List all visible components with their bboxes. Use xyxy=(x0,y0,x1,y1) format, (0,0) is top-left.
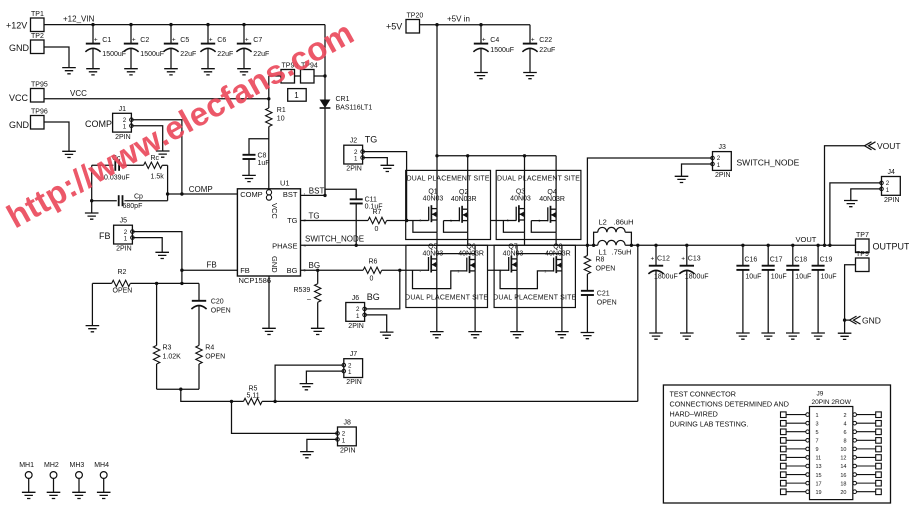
svg-text:+: + xyxy=(209,37,213,44)
capacitor Cc 0.039uF xyxy=(92,164,114,166)
resistor R5 5.11 xyxy=(244,398,263,404)
wire VOUT arrow to rail xyxy=(825,146,865,246)
svg-text:+: + xyxy=(531,37,535,44)
svg-text:40N03: 40N03 xyxy=(510,196,531,203)
svg-text:OPEN: OPEN xyxy=(211,307,231,314)
wire lower drain link xyxy=(437,253,475,255)
wire TP96 to ground xyxy=(44,122,69,151)
wire J3 pin1 to ground xyxy=(682,164,713,176)
svg-text:BG: BG xyxy=(309,261,321,270)
test point TP95 xyxy=(31,89,45,103)
test connector outline box xyxy=(663,385,890,503)
resistor R3 1.02K xyxy=(156,283,158,345)
svg-text:MH2: MH2 xyxy=(44,462,59,469)
svg-text:+: + xyxy=(245,37,249,44)
svg-text:R3: R3 xyxy=(163,345,172,352)
svg-text:FB: FB xyxy=(240,266,250,275)
svg-text:Q5: Q5 xyxy=(428,244,437,251)
svg-text:TG: TG xyxy=(287,216,298,225)
resistor R7 0 xyxy=(368,217,387,223)
test point TP7 xyxy=(856,239,870,253)
svg-text:2: 2 xyxy=(843,413,846,419)
wire Q6 source to ground xyxy=(474,271,476,332)
svg-text:TG: TG xyxy=(365,135,378,145)
svg-text:CR1: CR1 xyxy=(336,96,350,103)
svg-text:TP7: TP7 xyxy=(856,232,869,239)
svg-text:TP96: TP96 xyxy=(31,109,48,116)
svg-text:TP1: TP1 xyxy=(31,11,44,18)
svg-text:12: 12 xyxy=(840,456,846,462)
wire Q6 drain riser to switch bus xyxy=(474,245,476,259)
svg-text:+5V: +5V xyxy=(386,22,402,32)
wire J1 pin2 to COMP net xyxy=(131,120,182,194)
J9 pins 13 and 14 xyxy=(781,463,787,469)
svg-text:COMP: COMP xyxy=(189,185,213,194)
svg-text:Q3: Q3 xyxy=(516,189,525,196)
wire Q8 drain riser to switch bus xyxy=(561,245,563,259)
svg-text:40N03R: 40N03R xyxy=(539,196,565,203)
svg-text:R4: R4 xyxy=(205,345,214,352)
svg-text:R7: R7 xyxy=(373,209,382,216)
svg-text:1: 1 xyxy=(124,236,128,243)
test point TP20 xyxy=(406,20,420,34)
svg-text:HARD–WIRED: HARD–WIRED xyxy=(670,410,718,419)
ground C16 xyxy=(736,333,750,339)
J9 pins 7 and 8 xyxy=(781,438,787,444)
capacitor C12 1800uF xyxy=(655,245,657,265)
ground comp network xyxy=(85,213,99,219)
svg-text:+12V: +12V xyxy=(6,21,27,31)
svg-text:OPEN: OPEN xyxy=(597,300,617,307)
svg-text:22uF: 22uF xyxy=(217,51,233,58)
J9 pins 15 and 16 xyxy=(781,472,787,478)
transistor Q8 40N03R xyxy=(554,256,562,273)
svg-text:1500uF: 1500uF xyxy=(490,47,514,54)
ground J2 xyxy=(381,165,395,171)
wire Q7 source to ground xyxy=(516,270,518,331)
wire R5 line to VOUT riser xyxy=(262,400,638,402)
svg-text:C2: C2 xyxy=(140,37,149,44)
ground J6 xyxy=(380,332,394,338)
capacitor C22 22uF xyxy=(529,25,531,44)
svg-text:C13: C13 xyxy=(688,256,701,263)
ground TP2 xyxy=(62,68,76,74)
svg-text:FB: FB xyxy=(99,231,111,241)
svg-text:1500uF: 1500uF xyxy=(140,51,164,58)
svg-text:+: + xyxy=(651,256,655,263)
wire J8 pin2 to sense line xyxy=(232,401,338,433)
svg-text:17: 17 xyxy=(816,481,822,487)
svg-text:C20: C20 xyxy=(211,299,224,306)
capacitor C17 10uF xyxy=(767,245,769,265)
ground C5 xyxy=(164,69,178,75)
connector J7 xyxy=(344,359,363,378)
wire Q6 gate underpass xyxy=(413,270,467,288)
wire +5V in rail xyxy=(420,24,531,26)
svg-text:10uF: 10uF xyxy=(745,274,761,281)
J9 pins 9 and 10 xyxy=(781,446,787,452)
wire J3 pin2 to switch node xyxy=(587,158,712,245)
svg-text:J8: J8 xyxy=(344,420,352,427)
svg-text:SWITCH_NODE: SWITCH_NODE xyxy=(305,235,364,244)
resistor Rc 1.5k xyxy=(144,162,163,168)
ground R2 xyxy=(86,326,100,332)
svg-text:1: 1 xyxy=(356,313,360,320)
svg-text:TG: TG xyxy=(309,211,320,220)
svg-text:CONNECTIONS DETERMINED AND: CONNECTIONS DETERMINED AND xyxy=(670,400,789,409)
svg-text:C18: C18 xyxy=(794,257,807,264)
svg-text:+: + xyxy=(172,37,176,44)
test point TP9 xyxy=(856,258,870,272)
wire C8 tap xyxy=(249,139,269,155)
svg-text:20PIN 2ROW: 20PIN 2ROW xyxy=(812,399,852,406)
svg-text:15: 15 xyxy=(816,473,822,479)
wire lower drain link xyxy=(517,253,562,255)
wire BG gate bridge between lower boxes xyxy=(488,269,509,271)
wire TG from U1 to R7 xyxy=(301,220,369,222)
wire R2 left to ground xyxy=(91,283,93,325)
svg-text:R2: R2 xyxy=(118,269,127,276)
wire Q3 drain riser xyxy=(524,156,526,209)
diode CR1 BAS116LT1 xyxy=(324,76,326,100)
wire TG gate bridge between upper boxes xyxy=(491,220,517,222)
wire Q8 source to ground xyxy=(561,271,563,332)
svg-text:6: 6 xyxy=(843,430,846,436)
wire divider bottom xyxy=(157,388,199,390)
svg-text:Q2: Q2 xyxy=(459,189,468,196)
resistor R6 0 xyxy=(363,267,382,273)
svg-text:L2: L2 xyxy=(599,218,607,227)
svg-text:+12_VIN: +12_VIN xyxy=(63,15,95,24)
ground C6 xyxy=(201,69,215,75)
ground C22 xyxy=(523,73,537,79)
svg-text:.75uH: .75uH xyxy=(612,248,632,257)
wire Q2 gate underpass and source xyxy=(444,221,468,233)
svg-text:1uF: 1uF xyxy=(258,160,270,167)
op-amp U1 NCP1586 controller xyxy=(237,189,300,276)
wire J5 pin2 to FB net xyxy=(132,232,182,271)
test point TP96 xyxy=(31,116,45,130)
svg-text:PHASE: PHASE xyxy=(272,242,297,251)
net arrow GND xyxy=(850,316,861,324)
svg-text:OPEN: OPEN xyxy=(113,287,133,294)
svg-text:MH3: MH3 xyxy=(70,462,85,469)
svg-text:TP95: TP95 xyxy=(31,82,48,89)
svg-text:1800uF: 1800uF xyxy=(654,274,678,281)
svg-text:MH1: MH1 xyxy=(19,462,34,469)
capacitor C6 22uF xyxy=(207,25,209,44)
svg-text:20: 20 xyxy=(840,490,846,496)
svg-text:40N03R: 40N03R xyxy=(451,196,477,203)
ground C19 xyxy=(811,333,825,339)
ground C4 xyxy=(474,73,488,79)
svg-text:10uF: 10uF xyxy=(771,274,787,281)
wire Q4 drain riser xyxy=(555,156,557,209)
svg-text:TP9: TP9 xyxy=(856,251,869,258)
wire Q7 drain riser to switch bus xyxy=(516,245,518,259)
wire R7 to gate of Q1 xyxy=(387,220,429,222)
svg-text:Cp: Cp xyxy=(134,193,143,200)
svg-text:0: 0 xyxy=(370,276,374,283)
wire comp network left leg to ground xyxy=(91,165,93,213)
svg-text:R539: R539 xyxy=(294,287,311,294)
sheet reference box 1 xyxy=(288,89,307,102)
resistor R2 OPEN xyxy=(92,282,111,284)
svg-text:VOUT: VOUT xyxy=(796,235,817,244)
svg-text:2PIN: 2PIN xyxy=(340,448,356,455)
svg-text:C7: C7 xyxy=(253,37,262,44)
svg-text:2PIN: 2PIN xyxy=(346,379,362,386)
svg-text:J9: J9 xyxy=(817,391,824,398)
svg-text:VCC: VCC xyxy=(70,89,87,98)
transistor Q7 40N03 xyxy=(509,256,517,273)
dual placement site box xyxy=(406,170,491,239)
svg-text:18: 18 xyxy=(840,481,846,487)
svg-text:1: 1 xyxy=(348,369,352,376)
J9 pins 11 and 12 xyxy=(781,455,787,461)
capacitor Cp 680pF xyxy=(92,200,117,202)
svg-text:1.02K: 1.02K xyxy=(163,354,182,361)
wire Q2 drain riser xyxy=(467,156,469,209)
transistor Q1 40N03 xyxy=(429,205,437,222)
ground Q7 source xyxy=(510,332,524,338)
svg-text:7: 7 xyxy=(816,438,819,444)
svg-text:J3: J3 xyxy=(719,144,727,151)
svg-text:GND: GND xyxy=(270,256,279,273)
capacitor C19 10uF xyxy=(817,245,819,265)
svg-text:Q8: Q8 xyxy=(553,244,562,251)
ground MH1 xyxy=(22,492,36,498)
svg-text:L1: L1 xyxy=(599,248,607,257)
svg-text:Q1: Q1 xyxy=(428,189,437,196)
svg-text:DUAL PLACEMENT SITE: DUAL PLACEMENT SITE xyxy=(497,176,580,183)
svg-text:1: 1 xyxy=(717,162,721,169)
ground J5 xyxy=(155,252,169,258)
svg-text:C4: C4 xyxy=(490,37,499,44)
svg-text:TP2: TP2 xyxy=(31,33,44,40)
wire VOUT rail xyxy=(625,244,855,246)
svg-text:C5: C5 xyxy=(180,37,189,44)
capacitor C13 1800uF xyxy=(686,245,688,265)
svg-text:BST: BST xyxy=(283,190,298,199)
svg-text:J1: J1 xyxy=(119,106,127,113)
svg-text:C6: C6 xyxy=(217,37,226,44)
svg-text:10uF: 10uF xyxy=(795,274,811,281)
svg-text:C8: C8 xyxy=(258,153,267,160)
svg-text:J2: J2 xyxy=(350,138,358,145)
ground C2 xyxy=(124,69,138,75)
wire J4 pin2 to VOUT rail xyxy=(830,183,882,245)
svg-text:BAS116LT1: BAS116LT1 xyxy=(336,104,373,111)
J9 pins 3 and 4 xyxy=(781,421,787,427)
svg-text:J5: J5 xyxy=(120,218,128,225)
capacitor C8 1uF xyxy=(243,154,256,156)
svg-text:1: 1 xyxy=(354,156,358,163)
svg-text:1: 1 xyxy=(123,124,127,131)
svg-text:40N03: 40N03 xyxy=(423,196,444,203)
svg-text:R5: R5 xyxy=(249,385,258,392)
svg-text:22uF: 22uF xyxy=(180,51,196,58)
svg-text:FB: FB xyxy=(207,261,217,270)
svg-text:10: 10 xyxy=(840,447,846,453)
svg-text:GND: GND xyxy=(9,43,30,53)
wire Q1 drain riser xyxy=(436,156,438,209)
wire J1 pin1 to ground xyxy=(131,126,162,151)
J9 pins 17 and 18 xyxy=(781,480,787,486)
capacitor C1 1500uF xyxy=(92,25,94,44)
test point TP94 xyxy=(301,70,315,84)
wire BST net xyxy=(301,194,326,196)
svg-text:DUAL PLACEMENT SITE: DUAL PLACEMENT SITE xyxy=(407,176,490,183)
ground J1 xyxy=(156,151,170,157)
wire Q2 gate lead xyxy=(444,220,460,222)
dual placement site box xyxy=(406,245,488,307)
svg-text:22uF: 22uF xyxy=(539,47,555,54)
wire COMP net to U1 xyxy=(168,193,238,195)
svg-text:C21: C21 xyxy=(597,291,610,298)
svg-text:SWITCH_NODE: SWITCH_NODE xyxy=(737,158,800,168)
ground J8 xyxy=(300,452,314,458)
wire Q4 gate underpass and source xyxy=(531,221,556,233)
ground C1 xyxy=(86,69,100,75)
inductor L2 .86uH xyxy=(594,232,598,245)
svg-text:2PIN: 2PIN xyxy=(346,166,362,173)
svg-text:+: + xyxy=(681,256,685,263)
svg-text:9: 9 xyxy=(816,447,819,453)
svg-text:OUTPUT: OUTPUT xyxy=(873,242,909,252)
wire J2 pin1 to ground xyxy=(363,158,388,166)
transistor Q3 40N03 xyxy=(516,205,524,222)
test point TP2 xyxy=(31,40,45,54)
transistor Q5 40N03 xyxy=(429,256,437,273)
svg-text:C11: C11 xyxy=(365,196,377,203)
ground Q5 source xyxy=(430,332,444,338)
ground Q8 source xyxy=(555,332,569,338)
svg-text:8: 8 xyxy=(843,438,846,444)
capacitor C5 22uF xyxy=(170,25,172,44)
capacitor C7 22uF xyxy=(243,25,245,44)
svg-text:C22: C22 xyxy=(539,37,552,44)
svg-text:DUAL PLACEMENT SITE: DUAL PLACEMENT SITE xyxy=(493,295,576,302)
ground MH3 xyxy=(72,492,86,498)
connector J2 xyxy=(344,145,363,164)
J9 pins 5 and 6 xyxy=(781,429,787,435)
ground C18 xyxy=(786,333,800,339)
svg-text:VOUT: VOUT xyxy=(877,141,901,151)
svg-text:40N03R: 40N03R xyxy=(458,251,484,258)
svg-text:COMP: COMP xyxy=(85,119,112,129)
svg-text:1: 1 xyxy=(886,187,890,194)
svg-text:R6: R6 xyxy=(369,258,378,265)
svg-text:J7: J7 xyxy=(350,351,358,358)
svg-text:GND: GND xyxy=(9,120,30,130)
svg-text:C19: C19 xyxy=(820,257,833,264)
ground MH4 xyxy=(97,492,111,498)
svg-text:–: – xyxy=(307,296,311,303)
transistor Q2 40N03R xyxy=(459,206,467,223)
transistor Q6 40N03R xyxy=(467,256,475,273)
connector J1 xyxy=(113,113,132,132)
wire Q5 source to ground xyxy=(436,270,438,331)
dual placement site box xyxy=(494,245,575,307)
svg-text:VCC: VCC xyxy=(270,203,279,219)
resistor R539 xyxy=(317,270,319,283)
resistor R1 10 xyxy=(266,108,272,127)
connector J3 xyxy=(713,152,732,171)
svg-text:Q7: Q7 xyxy=(508,244,517,251)
svg-text:0: 0 xyxy=(375,226,379,233)
svg-text:1800uF: 1800uF xyxy=(685,274,709,281)
svg-text:C17: C17 xyxy=(770,257,783,264)
capacitor C4 1500uF xyxy=(480,25,482,44)
J9 pins 19 and 20 xyxy=(781,489,787,495)
svg-text:5: 5 xyxy=(816,430,819,436)
wire Q3 source to bus xyxy=(503,220,524,232)
svg-text:680pF: 680pF xyxy=(123,203,143,210)
wire C11 to switch node xyxy=(355,204,357,246)
svg-text:2PIN: 2PIN xyxy=(116,246,132,253)
svg-text:C1: C1 xyxy=(102,37,111,44)
svg-text:J6: J6 xyxy=(352,295,360,302)
wire FB net to U1 xyxy=(182,269,238,271)
wire J6 pin2 to BG net xyxy=(365,270,400,309)
svg-text:C16: C16 xyxy=(744,257,757,264)
svg-text:14: 14 xyxy=(840,464,846,470)
dual placement site box xyxy=(496,170,581,239)
wire Q5 drain riser to switch bus xyxy=(436,245,438,259)
svg-text:DURING LAB TESTING.: DURING LAB TESTING. xyxy=(670,420,749,429)
capacitor C21 OPEN xyxy=(586,274,588,291)
wire FB down to divider xyxy=(181,270,183,283)
svg-text:2PIN: 2PIN xyxy=(348,323,364,330)
ground TP96 xyxy=(62,151,76,157)
wire R6 to gate of Q5 xyxy=(382,269,429,271)
svg-text:U1: U1 xyxy=(280,179,290,188)
test point TP93 xyxy=(281,70,295,84)
ground Q6 source xyxy=(468,332,482,338)
ground TP9 xyxy=(838,333,852,339)
connector J5 xyxy=(114,225,133,244)
svg-text:R8: R8 xyxy=(596,257,605,264)
wire high-side drain bus xyxy=(437,155,556,157)
svg-text:1: 1 xyxy=(294,91,299,100)
resistor R4 OPEN xyxy=(196,345,202,364)
svg-text:16: 16 xyxy=(840,473,846,479)
net arrow VOUT xyxy=(865,142,876,150)
svg-text:1500uF: 1500uF xyxy=(102,51,126,58)
wire Q4 gate lead xyxy=(531,220,548,222)
ground J7 xyxy=(300,384,314,390)
svg-text:10uF: 10uF xyxy=(821,274,837,281)
U1 pin label VCC pin 8 xyxy=(266,190,271,195)
ground J4 xyxy=(844,201,858,207)
svg-text:.86uH: .86uH xyxy=(614,218,634,227)
capacitor C20 OPEN xyxy=(198,283,200,300)
svg-text:C12: C12 xyxy=(657,256,670,263)
svg-text:19: 19 xyxy=(816,490,822,496)
capacitor C11 0.1uF xyxy=(350,198,363,200)
connector J8 xyxy=(338,427,357,446)
wire U1 GND to ground xyxy=(268,276,270,328)
wire J7 pin2 to sense line xyxy=(275,365,344,401)
svg-text:1: 1 xyxy=(342,437,346,444)
svg-text:1: 1 xyxy=(816,413,819,419)
wire Q1 source to bus xyxy=(413,220,437,232)
svg-text:10: 10 xyxy=(277,116,285,123)
svg-text:+: + xyxy=(94,37,98,44)
svg-text:COMP: COMP xyxy=(240,190,263,199)
wire J5 pin1 to ground xyxy=(132,238,162,253)
